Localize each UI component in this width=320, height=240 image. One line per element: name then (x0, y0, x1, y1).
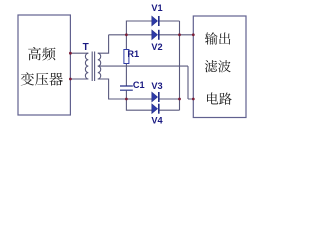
wire: V2 cathode to output box (159, 34, 193, 36)
transformer T primary winding (85, 53, 88, 79)
label 滤波 (205, 60, 217, 72)
svg-text:C1: C1 (133, 80, 145, 90)
wire: V4 cathode to vertical bus (159, 109, 180, 111)
diode V4 (152, 104, 159, 114)
wire: secondary bottom down and right (98, 79, 152, 99)
left box: HF transformer block 高频变压器 (18, 15, 70, 115)
svg-text:R1: R1 (127, 49, 139, 59)
diode V1 (152, 16, 159, 26)
capacitor C1 (120, 86, 133, 90)
wire: snubber vertical above R1 (125, 35, 127, 50)
wire: box to primary bottom (70, 78, 88, 80)
right box: output filter block 输出滤波电路 (193, 16, 246, 118)
label 电路 (207, 92, 218, 104)
wire: branch up to V1 (126, 21, 151, 35)
svg-text:T: T (83, 42, 89, 53)
wire: box to primary top (70, 52, 88, 54)
svg-text:V2: V2 (151, 42, 162, 52)
label 输出 (205, 32, 218, 44)
diode V3 (152, 92, 159, 102)
svg-text:V1: V1 (151, 3, 162, 13)
wire: R1 to C1 (125, 64, 127, 87)
diode V2 (152, 30, 159, 40)
resistor R1 (124, 50, 129, 64)
svg-text:V3: V3 (151, 81, 162, 91)
wire: right vertical bus (179, 21, 181, 110)
wire: C1 down to V4 rail corner (126, 90, 151, 110)
wire: secondary center tap to box (98, 66, 194, 99)
label 变压器 (21, 72, 34, 85)
transformer T secondary winding (98, 53, 101, 79)
label 高频 (28, 47, 41, 60)
wire: secondary top up to rail (98, 35, 109, 53)
junction dots (69, 52, 72, 55)
transformer T core (92, 52, 94, 82)
wire: V3 cathode to vertical bus (159, 98, 180, 100)
wire: V1 cathode to right vertical (159, 20, 180, 22)
wire: rail to V2 anode (109, 34, 152, 36)
svg-text:V4: V4 (151, 116, 163, 126)
